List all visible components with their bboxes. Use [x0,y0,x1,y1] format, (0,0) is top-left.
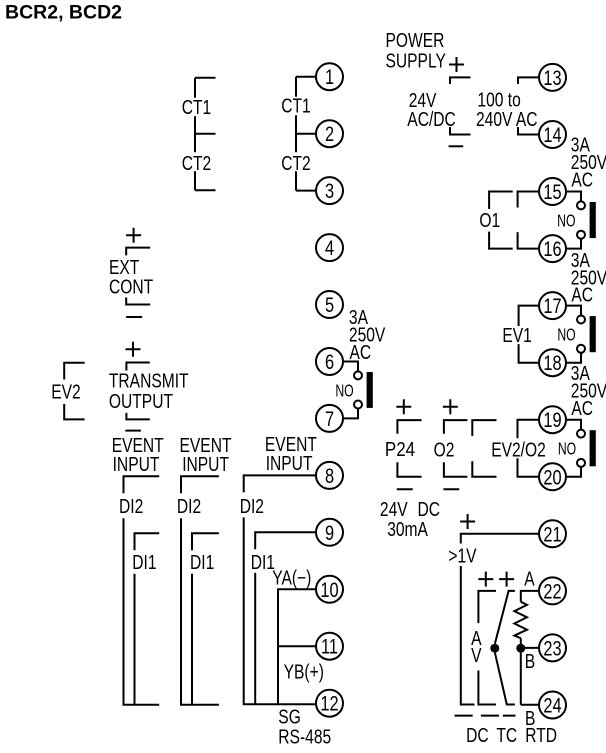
svg-text:OUTPUT: OUTPUT [109,390,173,412]
svg-text:21: 21 [543,522,561,545]
svg-text:30mA: 30mA [387,518,428,540]
svg-text:18: 18 [543,351,561,374]
svg-text:CONT: CONT [109,276,153,298]
svg-text:CT2: CT2 [281,152,310,174]
svg-text:B: B [525,650,535,672]
svg-text:YA(−): YA(−) [272,567,311,589]
svg-text:7: 7 [325,407,334,430]
svg-text:AC: AC [350,341,372,363]
svg-text:13: 13 [543,66,561,89]
svg-text:AC: AC [571,284,593,306]
svg-text:TC: TC [496,724,517,746]
svg-text:DC: DC [466,724,489,746]
svg-text:EV2: EV2 [51,380,80,402]
svg-text:CT1: CT1 [182,96,211,118]
svg-text:3: 3 [325,179,334,202]
svg-text:RS-485: RS-485 [278,726,331,748]
svg-text:>1V: >1V [448,545,476,567]
svg-text:P24: P24 [385,437,415,460]
svg-text:DI1: DI1 [132,551,156,573]
svg-text:NO: NO [557,325,575,345]
svg-text:BCR2, BCD2: BCR2, BCD2 [5,2,122,24]
svg-text:16: 16 [543,237,561,260]
svg-text:23: 23 [543,636,561,659]
svg-text:5: 5 [325,293,334,316]
svg-text:POWER: POWER [386,29,445,51]
svg-text:AC/DC: AC/DC [407,108,456,130]
svg-text:INPUT: INPUT [266,452,313,474]
svg-text:RTD: RTD [525,724,557,746]
svg-text:TRANSMIT: TRANSMIT [109,370,189,392]
svg-text:AC: AC [571,169,593,191]
svg-text:DI1: DI1 [251,551,275,573]
svg-text:A: A [524,568,534,590]
svg-text:NO: NO [335,381,353,401]
svg-text:EV1: EV1 [502,324,531,346]
svg-text:CT1: CT1 [281,95,310,117]
svg-text:DI2: DI2 [119,495,143,517]
svg-text:O1: O1 [479,209,500,231]
svg-text:SUPPLY: SUPPLY [386,49,446,71]
svg-text:12: 12 [320,692,338,715]
svg-text:DI2: DI2 [240,495,264,517]
svg-text:14: 14 [543,123,561,146]
svg-text:19: 19 [543,408,561,431]
svg-text:1: 1 [325,65,334,88]
svg-text:SG: SG [278,706,301,728]
svg-text:NO: NO [557,211,575,231]
svg-text:O2: O2 [434,438,455,460]
svg-text:8: 8 [325,464,334,487]
svg-text:INPUT: INPUT [182,453,229,475]
svg-text:20: 20 [543,465,561,488]
svg-text:6: 6 [325,350,334,373]
svg-text:AC: AC [571,397,593,419]
svg-text:EV2/O2: EV2/O2 [491,439,546,461]
svg-text:10: 10 [320,578,338,601]
svg-text:V: V [471,644,481,666]
svg-text:240V AC: 240V AC [476,108,538,130]
svg-text:24: 24 [543,694,561,717]
svg-text:9: 9 [325,521,334,544]
svg-text:22: 22 [543,579,561,602]
svg-text:INPUT: INPUT [113,453,160,475]
svg-text:NO: NO [558,439,576,459]
svg-text:DI2: DI2 [177,495,201,517]
svg-text:17: 17 [543,294,561,317]
svg-text:YB(+): YB(+) [284,660,324,682]
svg-text:4: 4 [325,236,334,259]
svg-text:2: 2 [325,122,334,145]
svg-text:15: 15 [543,180,561,203]
svg-text:11: 11 [321,635,338,658]
svg-text:CT2: CT2 [182,152,211,174]
svg-text:DI1: DI1 [190,551,214,573]
